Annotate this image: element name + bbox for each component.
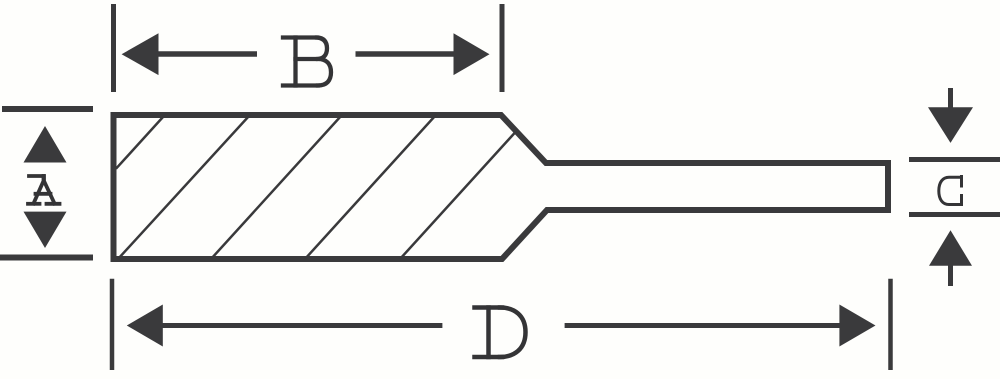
label C [939,177,962,205]
D dimension left arrowhead [127,305,163,347]
A dimension top extension line [2,106,93,112]
A dimension bottom extension line [0,255,93,261]
C dimension up arrow stem [948,264,953,286]
hatch line 3 [211,115,342,259]
B dimension right arrowhead [454,33,490,75]
label D [475,308,526,358]
D dimension left extension tick [110,279,115,370]
hatch line 5 [400,131,516,259]
D dimension right arrow line [565,323,841,328]
B dimension left arrowhead [122,33,159,75]
C dimension top extension line [909,157,1000,162]
D dimension left arrow line [160,323,442,328]
label A [28,176,60,204]
C dimension bottom extension line [909,212,1000,217]
hatch line 1 [116,115,165,169]
tool body outline [114,115,889,259]
B dimension left arrow line [155,51,257,57]
C dimension down arrow stem [948,88,953,112]
D dimension right arrowhead [839,305,875,347]
C dimension up arrowhead [929,230,972,266]
B dimension left extension tick [111,4,116,92]
hatch line 2 [118,115,250,259]
A dimension up arrowhead [24,126,67,163]
C dimension down arrowhead [928,107,973,143]
B dimension right extension tick [500,4,505,92]
D dimension right extension tick [888,279,893,370]
hatch line 4 [305,115,436,259]
label B [283,38,331,86]
A dimension down arrowhead [24,212,67,248]
B dimension right arrow line [356,51,458,57]
